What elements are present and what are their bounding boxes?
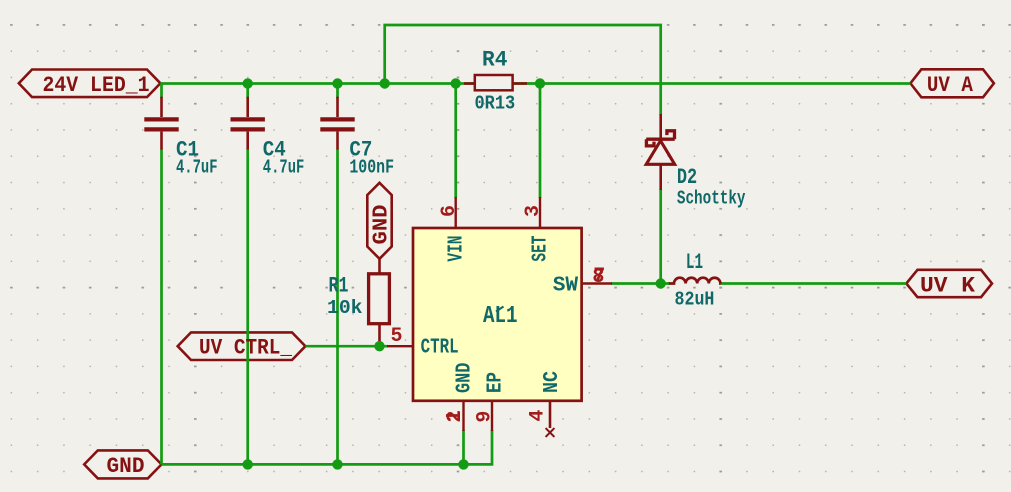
tick across L of AL1 <box>496 307 504 312</box>
capacitor C7 <box>320 97 354 150</box>
global label GND bottom-left <box>84 450 161 478</box>
svg-text:4.7uF: 4.7uF <box>263 157 305 179</box>
pin 3 stub (SET) <box>539 197 541 228</box>
resistor R1 <box>369 259 390 344</box>
wire C4 top <box>246 84 249 99</box>
svg-text:D2: D2 <box>677 165 697 190</box>
op-amp U1 body (IC AL1) <box>413 228 582 401</box>
svg-text:UV CTRL_: UV CTRL_ <box>199 336 293 361</box>
svg-text:1: 1 <box>443 410 466 422</box>
global label 24V LED_1 <box>19 70 161 98</box>
pin 8 stub (SW) <box>582 282 612 284</box>
svg-text:10k: 10k <box>327 297 363 319</box>
svg-text:SW: SW <box>553 273 578 297</box>
inductor L1 <box>669 278 721 284</box>
pin 6 stub (VIN) <box>455 197 457 228</box>
svg-text:4.7uF: 4.7uF <box>176 157 218 179</box>
wire main VIN rail <box>160 82 910 85</box>
wire UV CTRL to CTRL pin <box>305 345 388 348</box>
svg-text:Schottky: Schottky <box>677 188 746 210</box>
wire C7 top <box>336 84 339 99</box>
wire C1 top <box>160 84 163 99</box>
svg-text:NC: NC <box>540 371 564 393</box>
svg-text:GND: GND <box>107 454 145 479</box>
pin 4 stub (NC) <box>549 400 552 428</box>
svg-text:82uH: 82uH <box>675 289 715 311</box>
svg-text:AL1: AL1 <box>483 303 518 330</box>
wire C7 bottom to GND rail <box>336 149 339 465</box>
svg-text:9: 9 <box>473 411 496 423</box>
junction at GND pin bottom <box>458 459 468 469</box>
svg-text:0R13: 0R13 <box>475 93 516 115</box>
svg-text:100nF: 100nF <box>349 157 394 179</box>
svg-text:VIN: VIN <box>444 236 468 262</box>
svg-text:6: 6 <box>438 205 461 217</box>
junction at C7 bottom <box>332 459 342 469</box>
svg-text:7: 7 <box>593 265 605 288</box>
junction at top bypass <box>380 78 390 88</box>
svg-text:SET: SET <box>529 236 553 262</box>
junction at C7 top <box>332 78 342 88</box>
global label UV K <box>906 270 992 297</box>
resistor R4 <box>464 75 527 90</box>
junction at SW / D2 / L1 node <box>656 278 666 288</box>
wire C1 bottom to GND rail <box>160 149 163 465</box>
svg-text:EP: EP <box>484 372 508 393</box>
pin 9 stub (EP) <box>491 400 493 431</box>
wire L1 to UV K <box>720 282 906 285</box>
pin 2 stub (GND) <box>462 400 464 431</box>
capacitor C4 <box>231 97 265 150</box>
svg-text:L1: L1 <box>686 250 703 275</box>
global label GND vertical above R1 <box>367 183 391 259</box>
wire C4 bottom to GND rail <box>246 149 249 465</box>
capacitor C1 <box>144 97 178 150</box>
svg-text:GND: GND <box>371 205 394 245</box>
svg-text:CTRL: CTRL <box>421 335 459 359</box>
wire VIN pin column <box>454 84 457 199</box>
wire GND pin column <box>462 430 465 464</box>
pin 5 stub (CTRL) <box>387 345 413 347</box>
junction at C4 bottom <box>243 459 253 469</box>
junction at C4 top <box>243 78 253 88</box>
global label UV A <box>910 69 994 97</box>
svg-text:UV K: UV K <box>920 274 976 299</box>
wire top bypass to D2 cathode <box>385 25 661 115</box>
junction at CTRL / R1 <box>374 341 384 351</box>
wire GND bottom rail <box>162 430 493 464</box>
wire SET pin column <box>539 84 542 199</box>
svg-text:24V LED_1: 24V LED_1 <box>43 73 150 98</box>
svg-text:R1: R1 <box>329 274 349 299</box>
junction at SET column <box>535 78 545 88</box>
global label UV CTRL_ <box>178 332 306 360</box>
junction at VIN column <box>451 78 461 88</box>
svg-text:R4: R4 <box>482 48 507 73</box>
svg-text:UV A: UV A <box>927 73 974 98</box>
svg-text:3: 3 <box>522 205 545 217</box>
wire D2 anode to SW node <box>659 189 662 284</box>
wire SW to L1 <box>611 282 670 285</box>
diode D2 Schottky <box>646 114 675 190</box>
no-connect X on pin 4 <box>546 428 555 437</box>
svg-text:4: 4 <box>527 410 550 422</box>
svg-text:5: 5 <box>391 325 403 348</box>
svg-text:GND: GND <box>453 363 477 393</box>
